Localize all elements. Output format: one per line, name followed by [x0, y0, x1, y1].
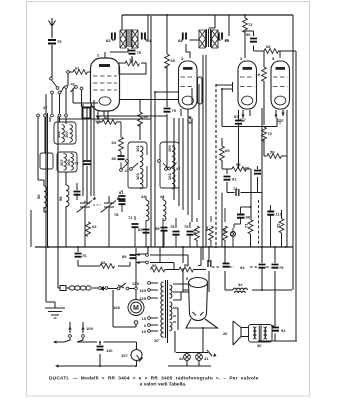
svg-text:71: 71 — [128, 215, 133, 220]
svg-text:58: 58 — [270, 150, 275, 155]
svg-text:85: 85 — [225, 38, 230, 43]
svg-text:90: 90 — [246, 32, 251, 37]
svg-text:110: 110 — [276, 212, 283, 217]
svg-text:63: 63 — [104, 115, 109, 120]
svg-text:22: 22 — [160, 194, 165, 199]
svg-text:68: 68 — [266, 44, 271, 49]
svg-text:M: M — [133, 305, 139, 312]
svg-text:76: 76 — [82, 253, 87, 258]
svg-text:72: 72 — [268, 131, 273, 136]
svg-text:82: 82 — [138, 227, 143, 232]
svg-text:106: 106 — [66, 159, 71, 166]
svg-text:32: 32 — [238, 282, 243, 287]
svg-text:95: 95 — [155, 226, 160, 231]
svg-text:16: 16 — [129, 57, 134, 62]
svg-text:220: 220 — [132, 281, 139, 286]
svg-text:84: 84 — [147, 38, 152, 43]
svg-text:96: 96 — [36, 194, 41, 199]
svg-text:19: 19 — [256, 72, 261, 77]
svg-text:59: 59 — [152, 263, 157, 268]
svg-text:107: 107 — [121, 353, 128, 358]
svg-text:15: 15 — [142, 316, 147, 321]
svg-text:78: 78 — [114, 212, 119, 217]
svg-text:57: 57 — [222, 228, 227, 233]
svg-text:109: 109 — [86, 326, 93, 331]
svg-text:65: 65 — [171, 58, 176, 63]
svg-text:22: 22 — [141, 194, 146, 199]
svg-text:98: 98 — [58, 196, 63, 201]
svg-text:61: 61 — [75, 66, 80, 71]
svg-text:125: 125 — [139, 296, 146, 301]
svg-text:65: 65 — [225, 148, 230, 153]
svg-text:103: 103 — [135, 173, 140, 180]
svg-text:e valori vedi Tabella.: e valori vedi Tabella. — [140, 382, 187, 388]
svg-text:79: 79 — [172, 108, 177, 113]
svg-text:91: 91 — [232, 177, 237, 182]
svg-text:10: 10 — [142, 329, 147, 334]
svg-text:41: 41 — [204, 356, 209, 361]
svg-text:71: 71 — [244, 223, 249, 228]
svg-text:100: 100 — [167, 145, 172, 152]
svg-text:79: 79 — [279, 265, 284, 270]
svg-text:88: 88 — [246, 215, 251, 220]
svg-text:30: 30 — [257, 343, 262, 348]
svg-text:94: 94 — [240, 265, 245, 270]
svg-text:101: 101 — [135, 145, 140, 152]
svg-text:89: 89 — [122, 254, 127, 259]
svg-text:64: 64 — [112, 140, 117, 145]
svg-text:107: 107 — [59, 159, 64, 166]
svg-text:26: 26 — [223, 331, 228, 336]
svg-text:102: 102 — [167, 173, 172, 180]
svg-text:47: 47 — [125, 168, 130, 173]
svg-text:100: 100 — [64, 131, 69, 138]
svg-text:108: 108 — [113, 305, 120, 310]
svg-text:74: 74 — [233, 186, 238, 191]
svg-text:66: 66 — [184, 263, 189, 268]
svg-text:62: 62 — [92, 224, 97, 229]
svg-text:66: 66 — [101, 260, 106, 265]
svg-text:DUCATI. — Modelli « RR 3404: DUCATI. — Modelli « RR 3404 » e « RR 340… — [49, 376, 259, 382]
svg-text:47: 47 — [176, 166, 181, 171]
svg-text:101: 101 — [56, 131, 61, 138]
svg-text:87: 87 — [234, 114, 239, 119]
svg-text:60: 60 — [144, 114, 149, 119]
svg-text:47: 47 — [43, 105, 48, 110]
svg-text:110: 110 — [106, 348, 113, 353]
svg-text:42: 42 — [71, 82, 76, 87]
svg-text:61: 61 — [192, 229, 197, 234]
svg-text:78: 78 — [170, 224, 175, 229]
svg-text:92: 92 — [281, 328, 286, 333]
svg-text:79: 79 — [245, 166, 250, 171]
svg-text:160: 160 — [139, 288, 146, 293]
svg-text:42: 42 — [179, 356, 184, 361]
svg-text:76: 76 — [74, 161, 79, 166]
svg-text:83: 83 — [106, 38, 111, 43]
svg-text:75: 75 — [137, 50, 142, 55]
svg-text:64: 64 — [204, 226, 209, 231]
svg-text:84: 84 — [178, 38, 183, 43]
svg-text:58: 58 — [236, 162, 241, 167]
svg-text:73: 73 — [276, 223, 281, 228]
svg-text:81: 81 — [119, 190, 124, 195]
svg-text:20': 20' — [154, 338, 159, 343]
svg-text:75: 75 — [57, 39, 62, 44]
svg-text:72: 72 — [248, 22, 253, 27]
svg-text:79: 79 — [184, 224, 189, 229]
svg-text:86: 86 — [112, 156, 117, 161]
